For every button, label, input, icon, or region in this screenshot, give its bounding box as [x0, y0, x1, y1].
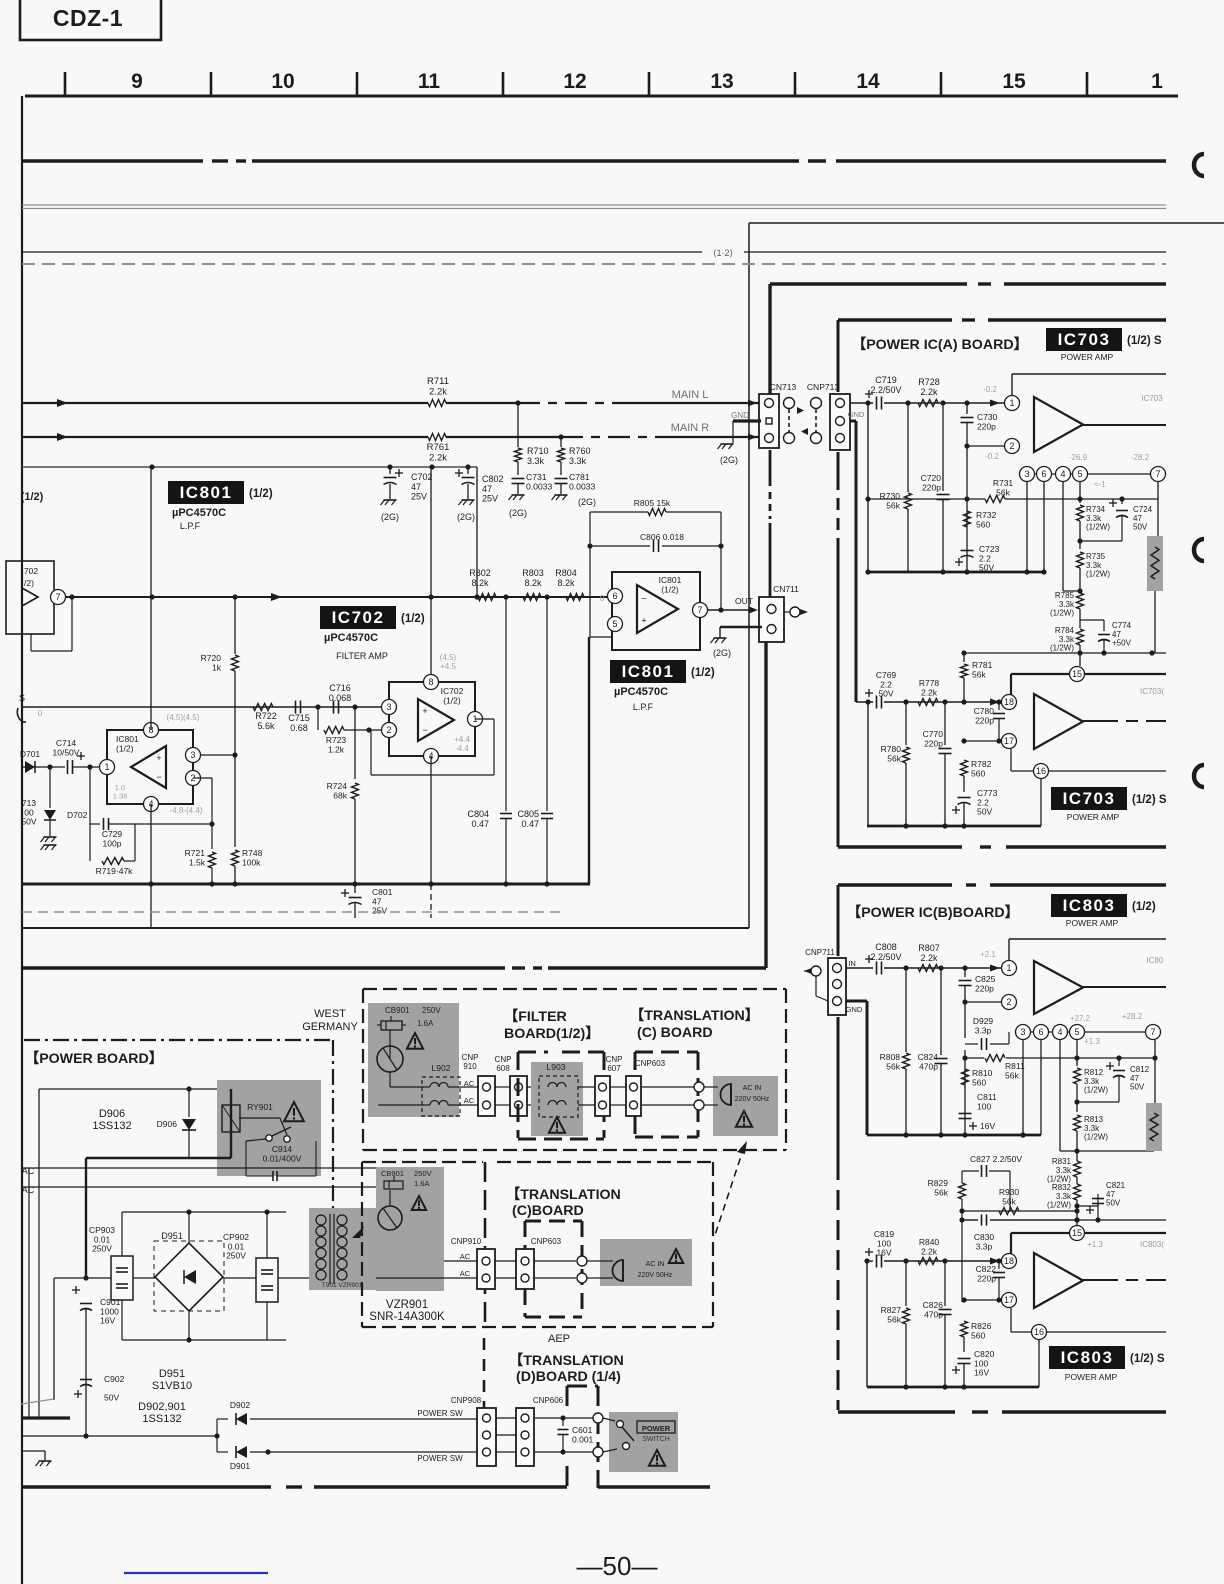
svg-text:C716: C716	[329, 683, 351, 693]
wire relay top	[39, 1086, 231, 1187]
pin 18 IC803-2	[1002, 1254, 1017, 1269]
svg-text:(D)BOARD (1/4): (D)BOARD (1/4)	[516, 1369, 621, 1385]
svg-text:+: +	[422, 706, 427, 716]
svg-text:56k: 56k	[887, 753, 901, 763]
svg-text:3.3k: 3.3k	[1084, 1124, 1100, 1133]
resistor R721	[185, 824, 216, 884]
label POWER SW top	[417, 1409, 463, 1418]
diode D906	[157, 1089, 196, 1158]
svg-text:1k: 1k	[212, 662, 222, 672]
svg-text:50V: 50V	[977, 807, 992, 817]
wire y223 with corner x749	[749, 223, 1224, 928]
svg-text:(4.5): (4.5)	[440, 653, 457, 662]
label FILTER BOARD	[504, 1009, 599, 1042]
POWER SWITCH symbol	[603, 1418, 634, 1452]
svg-text:13: 13	[710, 70, 733, 93]
fuse CB901 AEP symbol	[378, 1169, 432, 1230]
wire y499 line	[868, 498, 1158, 500]
svg-text:2: 2	[386, 725, 391, 735]
svg-text:(1/2): (1/2)	[691, 667, 715, 679]
svg-text:2.2k: 2.2k	[429, 386, 447, 397]
svg-text:18: 18	[1004, 1256, 1014, 1266]
capacitor C769	[865, 670, 896, 709]
svg-text:2.2k: 2.2k	[921, 1246, 938, 1256]
junction C805 top	[544, 594, 549, 599]
svg-text:16: 16	[1034, 1327, 1044, 1337]
transformer T901 coils	[316, 1214, 364, 1289]
wire POWER SW top	[268, 1418, 477, 1420]
svg-text:(2G): (2G)	[720, 455, 738, 465]
svg-text:0: 0	[38, 709, 43, 718]
ground (2G) under C702	[381, 500, 400, 522]
arrow MAIN L	[57, 399, 68, 407]
dashed pointer to AEP board	[714, 1141, 747, 1238]
bus line top (thick)	[22, 159, 1166, 162]
pin 15 IC703-2	[1070, 667, 1085, 682]
svg-text:(1/2W): (1/2W)	[1086, 523, 1110, 532]
svg-text:AEP: AEP	[548, 1333, 570, 1345]
svg-text:µPC4570C: µPC4570C	[172, 507, 226, 519]
resistor R813	[1074, 1115, 1109, 1151]
thick corner bottom left	[22, 1416, 70, 1419]
connector CNP603a	[626, 1076, 641, 1116]
svg-text:0: 0	[600, 594, 605, 603]
resistor R930	[999, 1187, 1020, 1215]
svg-text:2.2k: 2.2k	[920, 387, 938, 397]
svg-text:R805 15k: R805 15k	[634, 498, 671, 508]
capacitor C902	[74, 1374, 125, 1403]
svg-text:VZR901: VZR901	[386, 1299, 428, 1311]
warning triangle power switch	[649, 1450, 665, 1466]
svg-text:50V: 50V	[21, 817, 36, 827]
svg-text:+: +	[641, 616, 646, 626]
capacitor C731	[512, 472, 553, 494]
svg-text:14: 14	[856, 70, 880, 93]
svg-text:POWER AMP: POWER AMP	[1067, 812, 1120, 822]
pin 4 IC801-1	[144, 797, 159, 812]
ground (2G) CN713	[718, 421, 739, 465]
capacitor C830	[974, 1214, 995, 1251]
svg-text:(2G): (2G)	[713, 648, 731, 658]
svg-text:CNP: CNP	[495, 1055, 512, 1064]
svg-text:2: 2	[1009, 441, 1014, 451]
capacitor C811	[959, 1092, 997, 1131]
svg-text:CNP603: CNP603	[635, 1059, 666, 1068]
svg-text:0.68: 0.68	[290, 723, 308, 733]
svg-text:3.3k: 3.3k	[569, 456, 587, 466]
svg-text:AC: AC	[460, 1252, 471, 1261]
wire input line y702	[856, 701, 1004, 703]
svg-text:AC: AC	[464, 1079, 475, 1088]
svg-text:12: 12	[563, 70, 586, 93]
svg-text:D702: D702	[67, 810, 88, 820]
svg-text:50V: 50V	[878, 689, 893, 699]
junction R724 top	[352, 704, 357, 709]
resistor R780	[881, 699, 910, 826]
svg-text:100k: 100k	[242, 857, 261, 867]
resistor R811	[985, 1055, 1025, 1081]
svg-text:CNP910: CNP910	[451, 1237, 482, 1246]
wire pin17 line B	[961, 1297, 1001, 1302]
wire CNP910-CNP603 AEP	[495, 1261, 516, 1278]
svg-text:56k: 56k	[1002, 1196, 1016, 1206]
label D906 1SS132	[92, 1108, 131, 1132]
svg-text:IC803(: IC803(	[1140, 1240, 1164, 1249]
label VZR901	[369, 1299, 445, 1323]
label AC upper	[22, 1166, 35, 1176]
inductor L903 coils	[539, 1076, 578, 1117]
svg-text:AC: AC	[460, 1269, 471, 1278]
svg-text:D902,901: D902,901	[138, 1401, 186, 1413]
op-amp IC801-1 triangle	[131, 746, 166, 788]
capacitor C914	[246, 1141, 316, 1181]
svg-text:4: 4	[1060, 469, 1065, 479]
resistor R826	[961, 1321, 992, 1352]
wire y1220 line B	[965, 1217, 1166, 1222]
pin 3 IC801-1	[186, 748, 201, 763]
pin 2 IC702-2	[382, 723, 397, 738]
inductor L903 gray box	[531, 1062, 583, 1136]
svg-text:(C)BOARD: (C)BOARD	[512, 1203, 584, 1219]
bottom dashed rail	[22, 1485, 710, 1488]
wire pin1 to loop	[89, 767, 91, 824]
pin 1 IC703-1	[1005, 396, 1020, 411]
svg-text:47: 47	[411, 482, 421, 492]
wire y1211 line B	[959, 1208, 1079, 1213]
svg-text:R784: R784	[1055, 626, 1075, 635]
svg-text:R831: R831	[1052, 1157, 1072, 1166]
net (1-2) wire	[22, 251, 1166, 253]
wire x867 branch A2	[865, 699, 870, 826]
svg-text:µPC4570C: µPC4570C	[614, 686, 668, 698]
svg-text:220p: 220p	[977, 1273, 996, 1283]
svg-text:(4.5)(4.5): (4.5)(4.5)	[167, 713, 200, 722]
label CNP606	[533, 1396, 564, 1405]
ruler baseline	[25, 95, 1178, 98]
svg-text:(1/2W): (1/2W)	[1084, 1086, 1108, 1095]
pin 6 IC703-1	[1037, 467, 1052, 482]
svg-text:1.6A: 1.6A	[414, 1179, 429, 1188]
wire output B2	[1083, 1279, 1166, 1281]
capacitor C770	[923, 699, 952, 826]
svg-text:220p: 220p	[977, 421, 996, 431]
svg-text:WEST: WEST	[314, 1008, 346, 1020]
svg-text:CN711: CN711	[773, 584, 799, 594]
connector CNP603 AEP	[516, 1249, 534, 1289]
op-amp IC702-2 box	[389, 682, 475, 756]
wire feedback IC702-2	[371, 719, 494, 775]
svg-text:47: 47	[482, 484, 492, 494]
capacitor C826	[923, 1258, 952, 1387]
resistor R723	[318, 707, 389, 754]
wire x867 branch B2	[864, 1258, 869, 1387]
registration mark 3	[1194, 765, 1204, 787]
fusible resistor gray box B	[1146, 1040, 1162, 1151]
page number	[577, 1551, 658, 1581]
pin 2 IC803-1	[1002, 995, 1017, 1010]
POWER SWITCH gray box	[609, 1412, 678, 1472]
wire y928 return	[22, 927, 749, 929]
pin 4 IC702-2	[424, 749, 439, 764]
resistor R808	[880, 965, 910, 1135]
svg-text:R832: R832	[1052, 1183, 1072, 1192]
svg-text:470p: 470p	[924, 1309, 943, 1319]
resistor R782	[961, 759, 992, 792]
resistor R724	[327, 707, 359, 884]
connector CNP606	[516, 1408, 534, 1466]
wire output A2	[1083, 720, 1166, 722]
junction x152 on y597	[149, 594, 154, 599]
svg-text:50V: 50V	[1106, 1199, 1121, 1208]
capacitor C804	[467, 597, 512, 884]
translation C AEP dashed box	[362, 1162, 713, 1327]
svg-text:+50V: +50V	[1112, 639, 1132, 648]
junction R723 tap	[315, 704, 320, 709]
wire L903 to CNP607	[578, 1087, 595, 1105]
svg-text:50V: 50V	[1130, 1083, 1145, 1092]
capacitor C730	[961, 400, 998, 446]
pin 7 IC801-2	[693, 603, 708, 618]
svg-text:C804: C804	[467, 809, 489, 819]
label CNP608	[495, 1055, 512, 1073]
svg-text:2.2k: 2.2k	[920, 953, 938, 963]
svg-text:16V: 16V	[876, 1248, 891, 1258]
svg-text:IC803: IC803	[1061, 1348, 1114, 1367]
wire output A1	[1083, 424, 1166, 426]
resistor R805	[634, 498, 671, 516]
arrow to pin18	[990, 699, 1000, 706]
svg-text:7: 7	[55, 592, 60, 602]
label CNP603 AEP	[531, 1237, 562, 1246]
wire output B1	[1083, 986, 1166, 988]
AC IN gray box upper	[713, 1076, 778, 1136]
pencil IC703 gray 2	[1140, 687, 1164, 696]
svg-text:CB901: CB901	[385, 1006, 410, 1015]
resistor R803	[522, 568, 544, 601]
svg-text:GND: GND	[846, 1005, 863, 1014]
arrow MAIN R	[57, 433, 68, 441]
fusible resistor gray box A	[1147, 482, 1163, 653]
svg-text:D902: D902	[230, 1400, 251, 1410]
pencil +2.1	[980, 950, 996, 959]
diode D702	[44, 767, 88, 836]
wire y1220 line B	[959, 1217, 1079, 1222]
junction MAIN L / R710	[515, 400, 520, 405]
svg-text:D906: D906	[99, 1108, 125, 1120]
wire supply corner x477	[474, 467, 479, 600]
power board border	[24, 1040, 333, 1208]
svg-text:3.3k: 3.3k	[1059, 600, 1075, 609]
pin 18 IC703-2	[1002, 695, 1017, 710]
pin 17 IC803-2	[1002, 1293, 1017, 1308]
svg-text:IN: IN	[848, 959, 856, 968]
diode D701	[20, 749, 41, 773]
arrow to pin18 B	[990, 1258, 1000, 1265]
pin 8 IC801-1	[144, 723, 159, 738]
connector CNP910 AEP	[477, 1249, 495, 1289]
wire AC to bridge	[54, 1275, 309, 1280]
ruler numbers	[131, 70, 1163, 93]
jumper dashed links	[789, 407, 816, 435]
wire pin1 top rail	[1012, 374, 1166, 395]
label CNP910	[462, 1053, 479, 1071]
svg-text:220p: 220p	[975, 715, 994, 725]
capacitor C781	[555, 472, 596, 494]
resistor R804	[555, 568, 584, 601]
svg-text:D951: D951	[159, 1368, 185, 1380]
capacitor C714	[38, 738, 99, 774]
svg-text:FILTER AMP: FILTER AMP	[336, 651, 388, 661]
AC IN plug AEP	[596, 1260, 673, 1281]
capacitor C808	[865, 942, 902, 975]
capacitor C824	[918, 965, 948, 1135]
board B outline	[838, 885, 1166, 1412]
junction R720/pin3 line	[232, 752, 237, 757]
pin 5 IC801-2	[608, 617, 623, 632]
capacitor C773	[952, 788, 998, 826]
registration mark 1	[1194, 154, 1204, 176]
wire secondary top y1212	[122, 1209, 286, 1214]
svg-text:4: 4	[1057, 1027, 1062, 1037]
op-amp IC703-2	[1034, 694, 1083, 749]
svg-text:C806 0.018: C806 0.018	[640, 532, 684, 542]
capacitor C821	[1074, 1181, 1125, 1220]
wire pin15 line	[1011, 674, 1166, 696]
wire y1058 line B	[962, 1055, 1060, 1060]
label GND at CNP713	[848, 410, 865, 419]
svg-text:5: 5	[612, 619, 617, 629]
svg-text:C802: C802	[482, 474, 504, 484]
svg-text:L903: L903	[547, 1062, 566, 1072]
svg-text:POWER AMP: POWER AMP	[1066, 918, 1119, 928]
svg-text:1.5k: 1.5k	[189, 857, 206, 867]
svg-text:220p: 220p	[922, 482, 941, 492]
svg-text:250V: 250V	[92, 1244, 112, 1254]
resistor R812	[1074, 1040, 1109, 1112]
resistor R829	[928, 1171, 966, 1302]
label AC lower	[22, 1185, 35, 1195]
relay RY901 coil	[222, 1102, 273, 1132]
resistor R807	[918, 943, 940, 972]
capacitor C601	[534, 1415, 597, 1454]
svg-text:2.2k: 2.2k	[429, 452, 447, 463]
svg-text:2.2k: 2.2k	[921, 687, 938, 697]
label D951 S1VB10	[152, 1368, 192, 1392]
arrow into CN713 pin3	[748, 400, 757, 407]
svg-text:GERMANY: GERMANY	[302, 1021, 358, 1033]
wire x54 drop	[53, 1278, 55, 1400]
connector CNP608	[510, 1076, 527, 1116]
ruler ticks	[65, 72, 1087, 96]
svg-text:16: 16	[1036, 766, 1046, 776]
fuse CB901 symbol	[377, 1006, 441, 1072]
label C713 (cut)	[21, 798, 36, 827]
junction pin1 node	[87, 764, 92, 769]
svg-text:25V: 25V	[372, 906, 387, 916]
translation C inner dashed box	[635, 1052, 698, 1137]
svg-text:C724: C724	[1133, 505, 1153, 514]
pin 2 IC801-1	[186, 771, 201, 786]
wire pin3 drop B	[1020, 1040, 1025, 1138]
wire signal y597	[66, 596, 612, 598]
svg-text:CNP908: CNP908	[451, 1396, 482, 1405]
wire C825 node down	[964, 1002, 966, 1135]
ground rail y884 (thick)	[22, 883, 590, 886]
svg-text:250V: 250V	[414, 1169, 432, 1178]
resistor R720	[201, 597, 239, 755]
wire GND bus thick A	[850, 421, 856, 702]
svg-text:µPC4570C: µPC4570C	[324, 632, 378, 644]
svg-text:2: 2	[1006, 997, 1011, 1007]
svg-text:R802: R802	[469, 568, 491, 578]
svg-text:−: −	[641, 593, 646, 603]
svg-text:/2): /2)	[24, 578, 34, 588]
svg-text:POWER SW: POWER SW	[417, 1454, 463, 1463]
label IC803 first	[1051, 894, 1156, 917]
svg-text:D951: D951	[161, 1231, 183, 1241]
svg-text:(2G): (2G)	[578, 497, 596, 507]
relay contacts	[239, 1118, 291, 1142]
junction circles translation C	[694, 1082, 704, 1110]
capacitor C723	[955, 544, 1000, 573]
wire IC702 pin8 riser	[428, 467, 433, 682]
wire pin4 drop	[1063, 482, 1083, 594]
wire pin4 drop IC801-1	[148, 804, 153, 928]
wire GND bus thick B	[846, 1001, 867, 1135]
capacitor C802	[455, 464, 504, 503]
svg-text:25V: 25V	[411, 492, 427, 502]
pencil diagonal	[21, 1399, 54, 1404]
board A outline	[838, 320, 1166, 847]
wire CNP908 to CNP606	[496, 1418, 516, 1452]
svg-text:C827 2.2/50V: C827 2.2/50V	[970, 1154, 1022, 1164]
svg-text:(C) BOARD: (C) BOARD	[637, 1025, 713, 1041]
wire pin16 line B	[1011, 1308, 1166, 1332]
wire x29 x39 drops	[29, 1168, 39, 1418]
diode D901	[230, 1446, 251, 1471]
wire AC line 1	[22, 1167, 378, 1169]
svg-text:CNP713: CNP713	[807, 382, 839, 392]
op-amp IC702-2 triangle	[418, 699, 454, 741]
power rail A1 y572 (thick)	[865, 569, 1044, 574]
svg-text:(2G): (2G)	[457, 512, 475, 522]
label POWER AMP A1	[1061, 352, 1114, 362]
svg-text:C774: C774	[1112, 621, 1132, 630]
svg-text:R807: R807	[918, 943, 940, 953]
svg-text:3: 3	[386, 702, 391, 712]
resistor R802	[469, 568, 496, 601]
svg-text:R803: R803	[522, 568, 544, 578]
capacitor C719	[865, 375, 902, 410]
svg-text:560: 560	[971, 768, 985, 778]
resistor R719	[90, 824, 135, 876]
label IC703 first	[1046, 328, 1162, 351]
arrow on y597	[271, 593, 282, 601]
wire C719 input	[850, 402, 1004, 404]
svg-text:AC: AC	[464, 1096, 475, 1105]
warning triangle relay	[284, 1102, 304, 1121]
wire pin2 to node	[964, 443, 1004, 448]
junction MAIN R / R760	[558, 434, 563, 439]
svg-text:(1/2): (1/2)	[249, 488, 273, 500]
svg-text:R804: R804	[555, 568, 577, 578]
label CNP910 AEP	[451, 1237, 482, 1246]
svg-text:3.3k: 3.3k	[527, 456, 545, 466]
svg-text:220p: 220p	[924, 738, 943, 748]
svg-text:(1/2): (1/2)	[443, 695, 461, 705]
svg-text:R719·47k: R719·47k	[96, 866, 134, 876]
capacitor D929	[965, 1016, 1009, 1050]
